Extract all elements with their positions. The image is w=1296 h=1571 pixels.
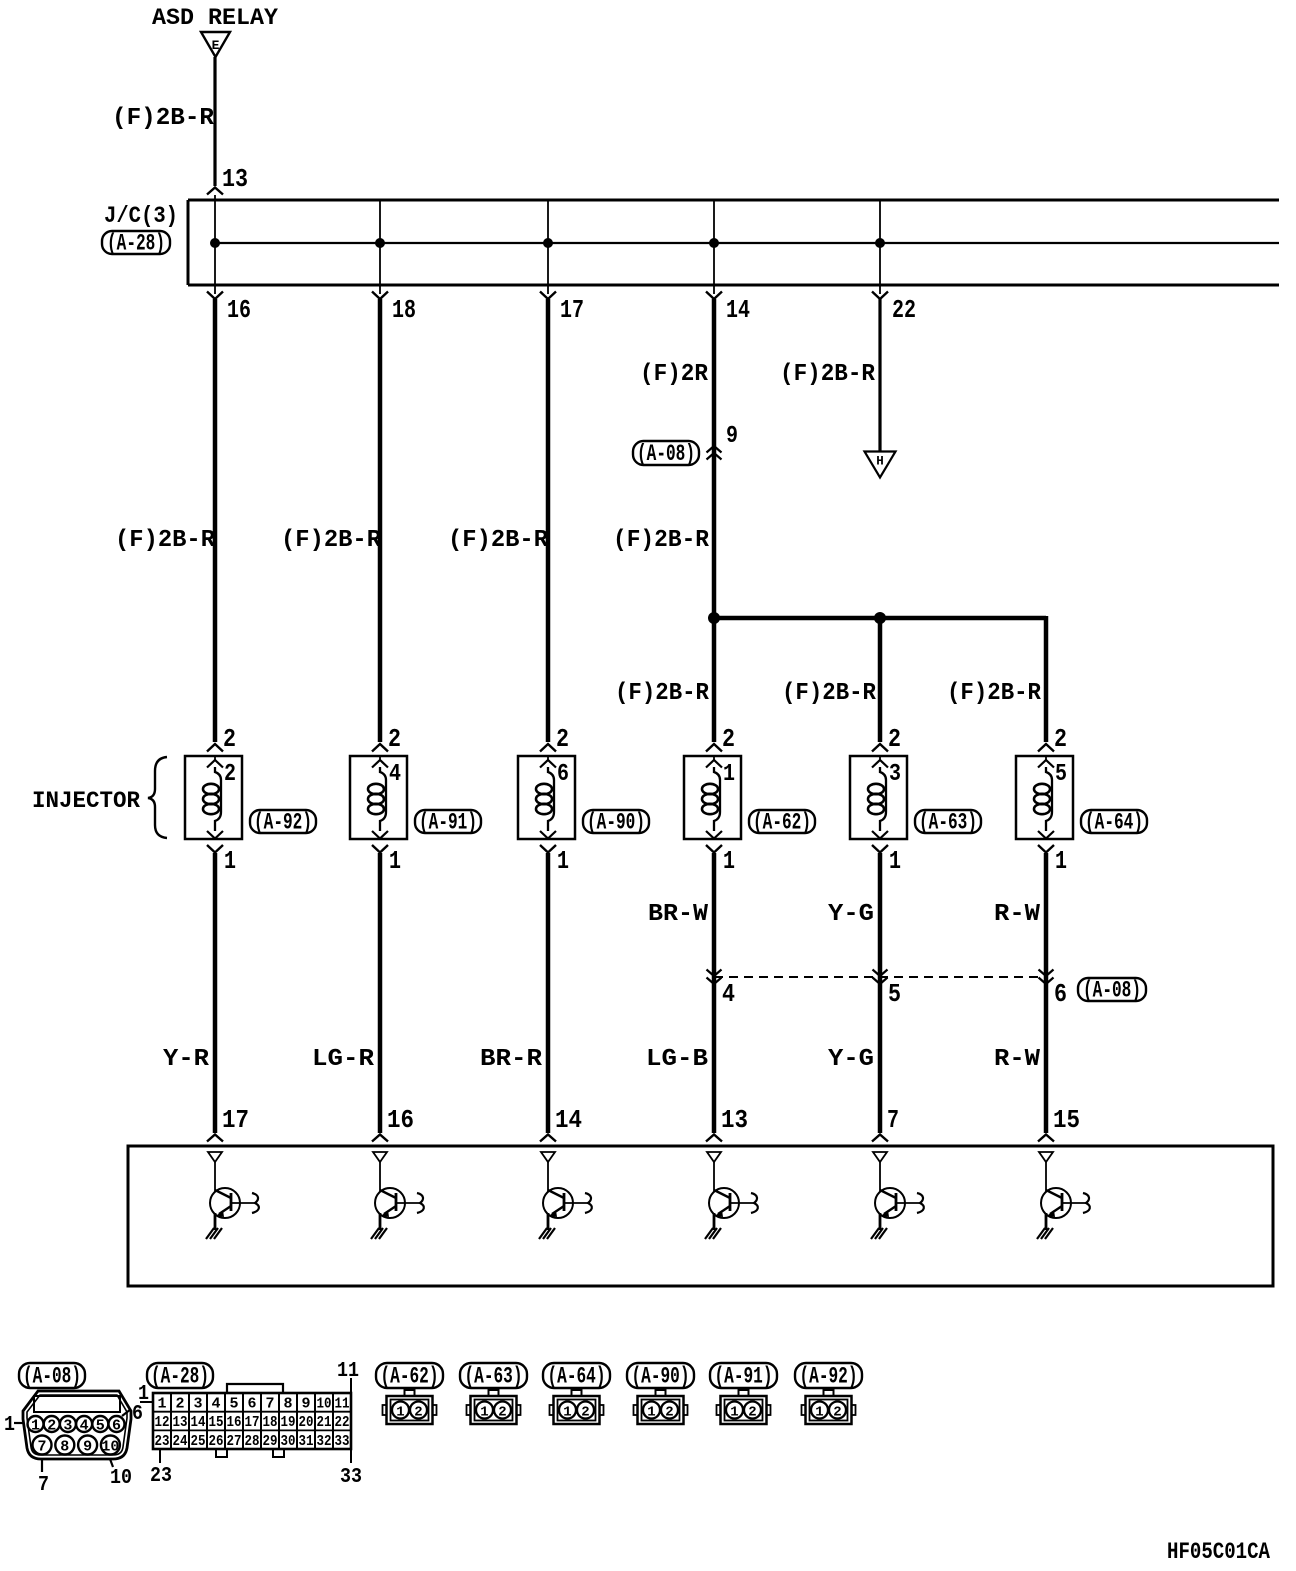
svg-text:17: 17: [245, 1414, 260, 1431]
svg-text:2: 2: [833, 1405, 841, 1421]
arrow into J/C pin 13: [207, 188, 223, 195]
A-08 pin 2: [44, 1416, 60, 1432]
connector label (A-63) bottom: [460, 1363, 527, 1388]
svg-text:(F)2B-R: (F)2B-R: [782, 680, 877, 707]
svg-text:(A-91): (A-91): [419, 810, 477, 836]
svg-text:(F)2B-R: (F)2B-R: [448, 527, 549, 554]
svg-text:1: 1: [563, 1405, 571, 1421]
wire col6 jumper corner down to injector: [1044, 616, 1049, 742]
(A-64) pin 2: [577, 1402, 594, 1419]
connector label (A-90): [583, 810, 649, 833]
A-08 pin 7: [33, 1436, 52, 1455]
svg-text:1: 1: [396, 1405, 404, 1421]
svg-text:(A-64): (A-64): [548, 1364, 606, 1390]
svg-text:20: 20: [299, 1414, 314, 1431]
svg-text:(F)2B-R: (F)2B-R: [281, 527, 382, 554]
connector label (A-90) bottom: [627, 1363, 694, 1388]
arrow out of J/C pin 16: [214, 285, 216, 294]
svg-text:18: 18: [263, 1414, 278, 1431]
svg-text:10: 10: [110, 1467, 132, 1490]
svg-text:12: 12: [155, 1414, 170, 1431]
svg-text:6: 6: [557, 761, 569, 788]
svg-text:26: 26: [209, 1433, 224, 1450]
wire through J/C at x=215: [214, 200, 216, 285]
A-08 pin 1: [28, 1416, 44, 1432]
svg-text:8: 8: [283, 1396, 292, 1413]
svg-text:7: 7: [887, 1105, 899, 1135]
svg-text:25: 25: [191, 1433, 206, 1450]
svg-text:LG-B: LG-B: [646, 1046, 708, 1073]
svg-text:3: 3: [193, 1396, 202, 1413]
connector label (A-92): [250, 810, 316, 833]
svg-text:28: 28: [245, 1433, 260, 1450]
ground inside ECU col1: [206, 1228, 222, 1239]
arrow below injector (A-64): [1038, 845, 1054, 853]
svg-text:6: 6: [112, 1418, 121, 1435]
connector A-28 face view grid: [153, 1393, 351, 1449]
connector label A-08 bottom: [19, 1363, 85, 1388]
jumper wire y=618 col4 to col6: [714, 616, 1046, 621]
svg-text:(A-28): (A-28): [107, 231, 165, 257]
inline connector arrows at A-08 pin 6: [1039, 970, 1054, 977]
(A-90) pin 2: [661, 1402, 678, 1419]
transistor Q2 base lead: [396, 1202, 420, 1204]
svg-text:7: 7: [37, 1439, 46, 1456]
injector coil box (A-64) pin 5: [1016, 756, 1073, 839]
wire through J/C at x=548: [547, 200, 549, 285]
svg-text:(F)2B-R: (F)2B-R: [615, 680, 710, 707]
svg-text:6: 6: [1054, 979, 1067, 1009]
svg-text:1: 1: [647, 1405, 655, 1421]
transistor Q2 driver: [379, 1162, 381, 1192]
ECU input triangle col4: [707, 1152, 721, 1162]
svg-text:1: 1: [1055, 846, 1067, 876]
svg-text:2: 2: [722, 724, 735, 754]
wire through J/C at x=380: [379, 200, 381, 285]
arrow below injector (A-63): [872, 845, 888, 853]
wire col5 injector to ECU: [878, 853, 883, 1133]
wire col6 injector to ECU: [1044, 853, 1049, 1133]
arrow into ECU pin 14: [540, 1135, 556, 1142]
svg-text:1: 1: [723, 846, 735, 876]
wire col1 J/C to injector: [213, 299, 218, 742]
arrow into ECU pin 13: [706, 1135, 722, 1142]
svg-text:(A-64): (A-64): [1085, 810, 1143, 836]
svg-text:(A-08): (A-08): [1083, 978, 1141, 1004]
ground symbol H (triangle): [865, 452, 896, 478]
(A-92) pin 2: [829, 1402, 846, 1419]
wire col1 from ASD relay down to J/C(3): [213, 57, 216, 186]
connector label (A-92) bottom: [795, 1363, 862, 1388]
connector (A-90) face view: [656, 1390, 666, 1396]
ECU input triangle col2: [373, 1152, 387, 1162]
svg-text:22: 22: [335, 1414, 350, 1431]
svg-text:9: 9: [301, 1396, 310, 1413]
svg-text:27: 27: [227, 1433, 242, 1450]
svg-text:23: 23: [150, 1465, 172, 1488]
svg-text:4: 4: [389, 761, 401, 788]
wire col2 injector to ECU: [378, 853, 383, 1133]
connector label A-08 at dashed line: [1078, 978, 1146, 1001]
svg-text:14: 14: [726, 295, 750, 325]
dashed line inline connector A-08: [714, 976, 1046, 978]
svg-text:9: 9: [726, 423, 738, 450]
junction node on bus at x=380: [375, 238, 385, 248]
svg-text:Y-G: Y-G: [828, 901, 874, 928]
svg-text:32: 32: [317, 1433, 332, 1450]
A-08 pin 10 leader: [110, 1459, 113, 1467]
arrow at bottom inside injector (A-62): [706, 831, 722, 839]
connector (A-63) face view: [489, 1390, 499, 1396]
svg-text:HF05C01CA: HF05C01CA: [1167, 1539, 1270, 1565]
wire col5 J/C to ground H: [878, 299, 881, 452]
svg-text:(F)2B-R: (F)2B-R: [613, 527, 710, 554]
(A-63) pin 2: [494, 1402, 511, 1419]
svg-text:9: 9: [83, 1439, 92, 1456]
svg-text:(A-91): (A-91): [715, 1364, 773, 1390]
arrow out of J/C pin 14: [713, 285, 715, 294]
svg-text:2: 2: [224, 761, 236, 788]
wire col3 J/C to injector: [546, 299, 551, 742]
arrow above injector (A-90): [540, 744, 556, 752]
wire col3 injector to ECU: [546, 853, 551, 1133]
svg-text:(F)2B-R: (F)2B-R: [115, 527, 216, 554]
svg-text:21: 21: [317, 1414, 332, 1431]
arrow below injector (A-90): [540, 845, 556, 853]
arrow into ECU pin 7: [872, 1135, 888, 1142]
A-08 pin 7 leader: [41, 1459, 43, 1472]
svg-text:1: 1: [389, 846, 401, 876]
inline connector arrows at A-08 pin 5: [873, 970, 888, 977]
junction node col4 at jumper: [708, 612, 720, 624]
svg-text:24: 24: [173, 1433, 188, 1450]
svg-text:6: 6: [247, 1396, 256, 1413]
ECU box (engine control unit): [128, 1146, 1273, 1286]
injector coil box (A-91) pin 4: [350, 756, 407, 839]
arrow below injector (A-91): [372, 845, 388, 853]
junction node on bus at x=215: [210, 238, 220, 248]
A-28 pin 33 leader: [350, 1449, 352, 1463]
svg-text:(A-08): (A-08): [637, 441, 695, 467]
svg-text:(A-62): (A-62): [381, 1364, 439, 1390]
arrow above injector (A-63): [872, 744, 888, 752]
svg-text:INJECTOR: INJECTOR: [32, 788, 140, 814]
connector (A-64) face view: [572, 1390, 582, 1396]
injector coil box (A-62) pin 1: [684, 756, 741, 839]
junction node on bus at x=880: [875, 238, 885, 248]
(A-62) pin 1: [392, 1402, 409, 1419]
bus bar inside J/C(3): [214, 242, 1279, 244]
arrow into ECU pin 17: [207, 1135, 223, 1142]
svg-text:3: 3: [63, 1418, 72, 1435]
arrow out of J/C pin 22: [879, 285, 881, 294]
svg-text:4: 4: [211, 1396, 220, 1413]
(A-64) pin 1: [559, 1402, 576, 1419]
svg-text:15: 15: [209, 1414, 224, 1431]
connector label (A-62) bottom: [376, 1363, 443, 1388]
injector coil winding (A-63): [880, 767, 886, 831]
connector label (A-64): [1081, 810, 1147, 833]
svg-text:(A-90): (A-90): [632, 1364, 690, 1390]
A-08 pin 6 leader: [122, 1409, 131, 1416]
svg-text:5: 5: [229, 1396, 238, 1413]
(A-90) pin 1: [643, 1402, 660, 1419]
injector coil winding (A-62): [714, 767, 720, 831]
A-08 pin 10: [101, 1436, 120, 1455]
svg-text:H: H: [876, 455, 884, 469]
transistor Q1 base lead: [231, 1202, 255, 1204]
svg-text:(A-63): (A-63): [465, 1364, 523, 1390]
connector (A-62) face view: [405, 1390, 415, 1396]
svg-text:Y-G: Y-G: [828, 1046, 874, 1073]
A-08 pin 5: [92, 1416, 108, 1432]
A-28 top tab: [227, 1384, 283, 1393]
svg-text:2: 2: [665, 1405, 673, 1421]
arrow at bottom inside injector (A-90): [540, 831, 556, 839]
connector symbol E (ASD relay, triangle): [201, 32, 230, 57]
arrow above injector (A-64): [1038, 744, 1054, 752]
svg-text:2: 2: [1054, 724, 1067, 754]
wire col5 jumper to injector: [878, 618, 883, 742]
arrow above injector (A-91): [372, 744, 388, 752]
wire col2 J/C to injector: [378, 299, 383, 742]
injector coil winding (A-90): [548, 767, 554, 831]
svg-text:13: 13: [173, 1414, 188, 1431]
svg-text:6: 6: [132, 1403, 143, 1426]
svg-text:33: 33: [335, 1433, 350, 1450]
(A-63) pin 1: [476, 1402, 493, 1419]
svg-text:1: 1: [224, 846, 236, 876]
svg-text:(A-62): (A-62): [753, 810, 811, 836]
svg-text:1: 1: [480, 1405, 488, 1421]
junction node col5 at jumper: [874, 612, 886, 624]
svg-text:2: 2: [47, 1418, 56, 1435]
svg-text:(A-08): (A-08): [23, 1364, 81, 1390]
svg-text:2: 2: [414, 1405, 422, 1421]
connector label A-28 bottom: [147, 1363, 213, 1388]
svg-text:13: 13: [222, 164, 248, 194]
svg-text:J/C(3): J/C(3): [104, 203, 178, 229]
svg-text:19: 19: [281, 1414, 296, 1431]
svg-text:(A-92): (A-92): [800, 1364, 858, 1390]
transistor Q3 base lead: [564, 1202, 588, 1204]
svg-text:5: 5: [888, 979, 901, 1009]
connector label (A-91) bottom: [710, 1363, 777, 1388]
svg-text:3: 3: [889, 761, 901, 788]
svg-text:1: 1: [723, 761, 735, 788]
svg-text:E: E: [212, 38, 220, 53]
A-08 pin 4: [76, 1416, 92, 1432]
ECU input triangle col5: [873, 1152, 887, 1162]
svg-text:2: 2: [175, 1396, 184, 1413]
inline connector arrows at A-08 pin 9: [707, 446, 722, 453]
svg-text:11: 11: [335, 1396, 350, 1413]
svg-text:2: 2: [748, 1405, 756, 1421]
inline connector arrows at A-08 pin 4: [707, 970, 722, 977]
connector (A-92) face view: [824, 1390, 834, 1396]
svg-text:11: 11: [337, 1360, 359, 1383]
arrow out of J/C pin 17: [547, 285, 549, 294]
svg-text:(A-90): (A-90): [587, 810, 645, 836]
injector coil box (A-63) pin 3: [850, 756, 907, 839]
wire through J/C at x=880: [879, 200, 881, 285]
(A-91) pin 2: [744, 1402, 761, 1419]
A-08 pin 6: [109, 1416, 125, 1432]
svg-text:LG-R: LG-R: [312, 1046, 375, 1073]
wire col4 J/C to injector: [712, 299, 717, 742]
injector coil winding (A-92): [215, 767, 221, 831]
(A-92) pin 1: [811, 1402, 828, 1419]
ground inside ECU col2: [371, 1228, 387, 1239]
A-08 pin 1 leader: [14, 1422, 23, 1424]
connector label A-28: [102, 231, 170, 254]
svg-text:31: 31: [299, 1433, 314, 1450]
svg-text:1: 1: [31, 1418, 40, 1435]
A-08 pin 9: [78, 1436, 97, 1455]
ground inside ECU col3: [539, 1228, 555, 1239]
arrow at bottom inside injector (A-91): [372, 831, 388, 839]
svg-text:17: 17: [222, 1105, 249, 1135]
svg-text:(F)2B-R: (F)2B-R: [112, 105, 215, 132]
svg-text:1: 1: [815, 1405, 823, 1421]
svg-text:(A-28): (A-28): [151, 1364, 209, 1390]
svg-text:7: 7: [265, 1396, 274, 1413]
svg-text:2: 2: [223, 724, 236, 754]
svg-text:2: 2: [388, 724, 401, 754]
wire col4 injector to ECU: [712, 853, 717, 1133]
junction node on bus at x=548: [543, 238, 553, 248]
svg-text:33: 33: [340, 1466, 362, 1489]
svg-text:4: 4: [80, 1418, 89, 1435]
svg-text:R-W: R-W: [994, 1046, 1041, 1073]
svg-text:(F)2B-R: (F)2B-R: [947, 680, 1042, 707]
arrow at bottom inside injector (A-63): [872, 831, 888, 839]
arrow into ECU pin 16: [372, 1135, 388, 1142]
connector label (A-91): [415, 810, 481, 833]
svg-text:1: 1: [4, 1414, 15, 1437]
injector coil winding (A-64): [1046, 767, 1052, 831]
svg-text:1: 1: [730, 1405, 738, 1421]
svg-text:1: 1: [889, 846, 901, 876]
transistor Q5 driver: [879, 1162, 881, 1192]
transistor Q1 driver: [214, 1162, 216, 1192]
transistor Q4 driver: [713, 1162, 715, 1192]
A-28 pin 23 leader: [159, 1449, 161, 1463]
svg-text:2: 2: [556, 724, 569, 754]
svg-text:(A-63): (A-63): [919, 810, 977, 836]
svg-text:23: 23: [155, 1433, 170, 1450]
svg-text:8: 8: [60, 1439, 69, 1456]
A-08 pin 8: [55, 1436, 74, 1455]
transistor Q3 driver: [547, 1162, 549, 1192]
wire through J/C at x=714: [713, 200, 715, 285]
inline connector A-08 pin 9 label: [633, 441, 699, 465]
arrow at bottom inside injector (A-92): [207, 831, 223, 839]
svg-text:30: 30: [281, 1433, 296, 1450]
junction block J/C(3) A-28 outline: [188, 199, 1279, 202]
svg-text:2: 2: [498, 1405, 506, 1421]
svg-text:1: 1: [557, 846, 569, 876]
ground inside ECU col5: [871, 1228, 887, 1239]
A-08 pin 3: [60, 1416, 76, 1432]
svg-text:5: 5: [96, 1418, 105, 1435]
junction node on bus at x=714: [709, 238, 719, 248]
svg-text:4: 4: [722, 979, 735, 1009]
A-28 bottom tabs: [216, 1449, 227, 1457]
(A-62) pin 2: [410, 1402, 427, 1419]
svg-text:(F)2B-R: (F)2B-R: [780, 361, 876, 388]
transistor Q6 base lead: [1062, 1202, 1086, 1204]
connector label (A-64) bottom: [543, 1363, 610, 1388]
wire col1 injector to ECU: [213, 853, 218, 1133]
brace for INJECTOR: [148, 757, 167, 838]
arrow below injector (A-62): [706, 845, 722, 853]
svg-text:7: 7: [38, 1474, 49, 1497]
svg-text:17: 17: [560, 295, 584, 325]
svg-text:R-W: R-W: [994, 901, 1041, 928]
arrow below injector (A-92): [207, 845, 223, 853]
connector A-08 face view: [23, 1391, 131, 1459]
svg-text:(F)2R: (F)2R: [640, 361, 709, 388]
svg-text:22: 22: [892, 295, 916, 325]
arrow above injector (A-62): [706, 744, 722, 752]
connector label (A-62): [749, 810, 815, 833]
svg-text:14: 14: [191, 1414, 206, 1431]
svg-text:Y-R: Y-R: [163, 1046, 210, 1073]
ECU input triangle col1: [208, 1152, 222, 1162]
arrow at bottom inside injector (A-64): [1038, 831, 1054, 839]
svg-text:2: 2: [888, 724, 901, 754]
connector (A-91) face view: [739, 1390, 749, 1396]
connector label (A-63): [915, 810, 981, 833]
ground inside ECU col4: [705, 1228, 721, 1239]
(A-91) pin 1: [726, 1402, 743, 1419]
arrow above injector (A-92): [207, 744, 223, 752]
ECU input triangle col3: [541, 1152, 555, 1162]
svg-text:10: 10: [101, 1439, 119, 1456]
svg-text:13: 13: [721, 1105, 748, 1135]
svg-text:5: 5: [1055, 761, 1067, 788]
svg-text:15: 15: [1053, 1105, 1080, 1135]
arrow out of J/C pin 18: [379, 285, 381, 294]
svg-text:18: 18: [392, 295, 416, 325]
svg-text:(A-92): (A-92): [254, 810, 312, 836]
arrow into ECU pin 15: [1038, 1135, 1054, 1142]
svg-text:1: 1: [157, 1396, 166, 1413]
svg-text:10: 10: [317, 1396, 332, 1413]
svg-text:2: 2: [581, 1405, 589, 1421]
injector coil box (A-90) pin 6: [518, 756, 575, 839]
injector coil box (A-92) pin 2: [185, 756, 242, 839]
ECU input triangle col6: [1039, 1152, 1053, 1162]
svg-text:BR-W: BR-W: [648, 901, 709, 928]
svg-text:16: 16: [227, 1414, 242, 1431]
injector coil winding (A-91): [380, 767, 386, 831]
svg-text:BR-R: BR-R: [480, 1046, 543, 1073]
transistor Q6 driver: [1045, 1162, 1047, 1192]
svg-text:29: 29: [263, 1433, 278, 1450]
svg-text:16: 16: [227, 295, 251, 325]
svg-text:16: 16: [387, 1105, 414, 1135]
svg-text:14: 14: [555, 1105, 582, 1135]
transistor Q5 base lead: [896, 1202, 920, 1204]
ground inside ECU col6: [1037, 1228, 1053, 1239]
transistor Q4 base lead: [730, 1202, 754, 1204]
svg-text:ASD RELAY: ASD RELAY: [152, 5, 278, 31]
